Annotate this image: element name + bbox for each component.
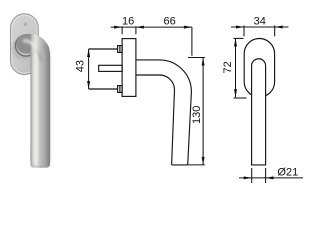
svg-text:Ø21: Ø21	[277, 166, 298, 178]
svg-text:66: 66	[163, 15, 175, 27]
svg-text:72: 72	[222, 61, 234, 73]
svg-text:43: 43	[74, 60, 86, 72]
svg-text:34: 34	[254, 15, 266, 27]
svg-text:130: 130	[191, 106, 203, 124]
svg-text:16: 16	[122, 16, 134, 28]
